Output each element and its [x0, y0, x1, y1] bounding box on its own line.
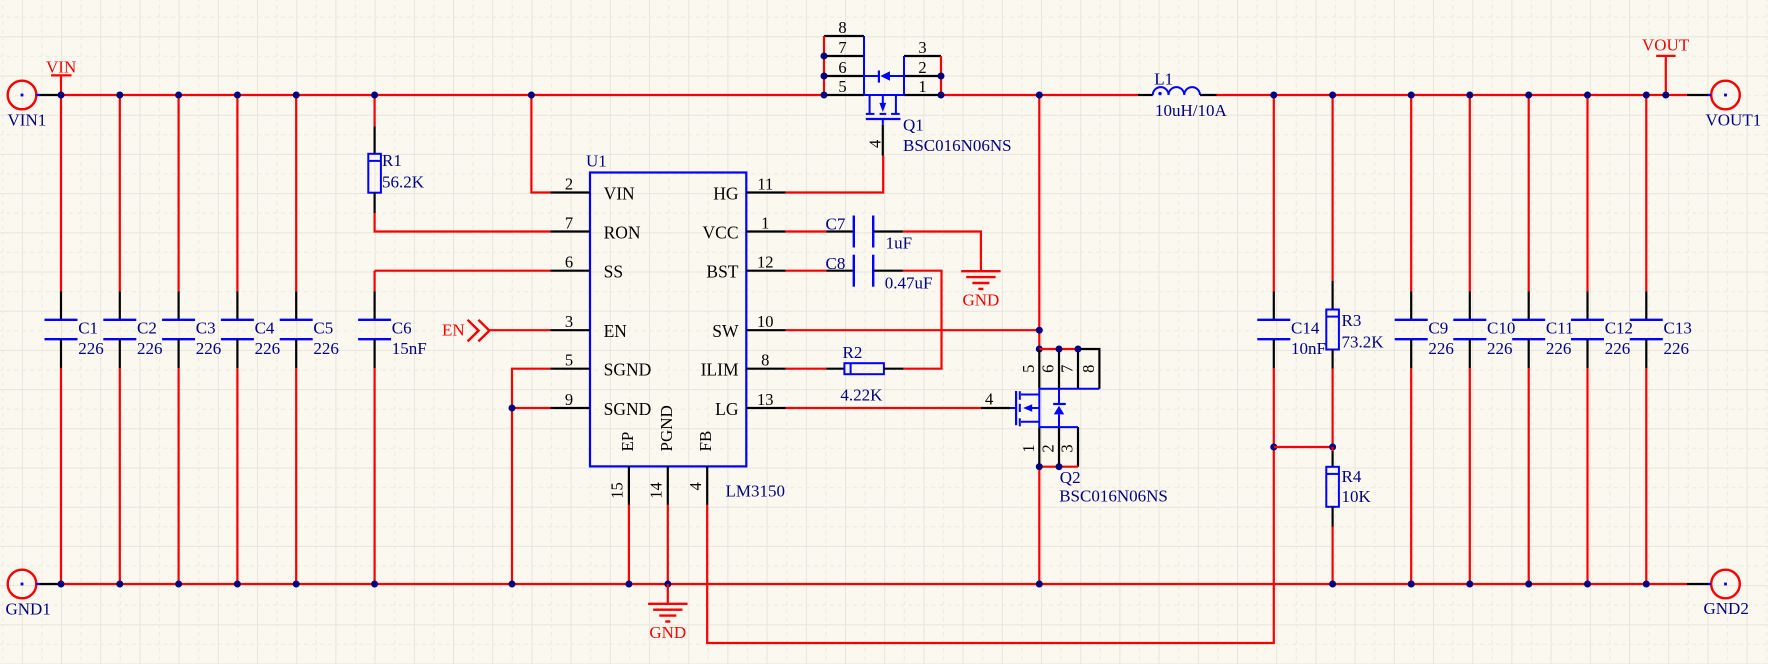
capacitor C6: [358, 271, 427, 588]
wire SGND net: [509, 369, 551, 588]
wire SS net: [375, 270, 551, 272]
capacitor C9: [1395, 92, 1454, 588]
svg-text:5: 5: [1019, 365, 1038, 373]
pin 8 ILIM: [701, 351, 786, 380]
svg-text:Q2: Q2: [1060, 468, 1081, 487]
svg-text:4: 4: [686, 482, 705, 490]
svg-text:56.2K: 56.2K: [382, 173, 425, 192]
wire EN net: [490, 329, 551, 331]
svg-text:15: 15: [608, 482, 627, 499]
svg-text:Q1: Q1: [903, 116, 924, 135]
pin 9 SGND: [551, 390, 652, 419]
svg-text:EP: EP: [618, 432, 637, 452]
svg-text:7: 7: [1058, 365, 1077, 373]
svg-text:10K: 10K: [1342, 487, 1372, 506]
port VIN1: [8, 81, 47, 130]
svg-text:3: 3: [565, 312, 573, 331]
svg-text:10uH/10A: 10uH/10A: [1155, 101, 1228, 120]
svg-text:12: 12: [757, 253, 774, 272]
svg-text:R3: R3: [1342, 311, 1362, 330]
pin 3 EN: [551, 312, 628, 341]
svg-text:226: 226: [137, 339, 163, 358]
svg-text:1: 1: [761, 213, 769, 232]
svg-text:C11: C11: [1546, 319, 1574, 338]
svg-text:7: 7: [838, 38, 846, 57]
resistor R4: [1326, 447, 1371, 588]
svg-text:226: 226: [78, 339, 104, 358]
pin 2 VIN: [551, 174, 636, 203]
svg-text:LM3150: LM3150: [726, 482, 786, 501]
svg-text:6: 6: [1039, 365, 1058, 373]
wire FB feedback net: [707, 368, 1274, 643]
wire VIN to pin 2: [528, 92, 551, 193]
svg-text:8: 8: [761, 351, 769, 370]
inductor L1 10uH/10A: [1138, 69, 1228, 120]
svg-text:GND: GND: [649, 623, 686, 642]
svg-text:R2: R2: [843, 343, 863, 362]
svg-text:VIN: VIN: [46, 58, 76, 77]
junction C14/FB node: [1270, 444, 1277, 451]
svg-text:FB: FB: [696, 431, 715, 452]
svg-text:GND1: GND1: [6, 600, 51, 619]
svg-text:0.47uF: 0.47uF: [885, 274, 933, 293]
svg-text:PGND: PGND: [657, 405, 676, 451]
resistor R2: [786, 343, 904, 405]
power port VIN: [46, 58, 76, 96]
capacitor C12: [1571, 92, 1633, 588]
svg-text:EN: EN: [442, 321, 465, 340]
svg-text:LG: LG: [715, 399, 739, 419]
svg-text:13: 13: [757, 390, 774, 409]
svg-text:3: 3: [1058, 444, 1077, 452]
svg-text:10nF: 10nF: [1291, 339, 1326, 358]
svg-text:1: 1: [1019, 444, 1038, 452]
wire VIN top rail: [37, 94, 1712, 96]
svg-text:VIN: VIN: [604, 183, 635, 203]
svg-text:C10: C10: [1487, 319, 1515, 338]
ground symbol GND (PGND): [648, 584, 687, 642]
svg-text:BST: BST: [706, 262, 738, 282]
svg-text:15nF: 15nF: [392, 339, 427, 358]
power port EN: [442, 320, 489, 342]
svg-text:VOUT1: VOUT1: [1706, 111, 1762, 130]
capacitor C2: [103, 92, 162, 588]
svg-text:C6: C6: [392, 319, 412, 338]
wire PGND to ground: [664, 505, 671, 588]
svg-text:C13: C13: [1664, 319, 1692, 338]
pin 5 SGND: [551, 351, 652, 380]
svg-text:ILIM: ILIM: [701, 360, 739, 380]
port VOUT1: [1706, 81, 1762, 130]
pin 11 HG: [713, 174, 785, 203]
svg-text:2: 2: [565, 174, 573, 193]
svg-text:BSC016N06NS: BSC016N06NS: [1059, 486, 1168, 505]
svg-text:GND2: GND2: [1704, 599, 1749, 618]
svg-text:C5: C5: [313, 319, 333, 338]
port GND1: [6, 570, 51, 619]
svg-text:2: 2: [918, 58, 926, 77]
svg-text:1: 1: [918, 77, 926, 96]
port GND2: [1704, 570, 1749, 618]
capacitor C10: [1453, 92, 1515, 588]
pin 13 LG: [715, 390, 785, 419]
svg-text:7: 7: [565, 213, 573, 232]
svg-text:C9: C9: [1428, 319, 1448, 338]
svg-text:5: 5: [838, 77, 846, 96]
svg-text:226: 226: [1428, 339, 1454, 358]
svg-text:GND: GND: [962, 291, 999, 310]
svg-text:4.22K: 4.22K: [840, 386, 883, 405]
svg-text:226: 226: [1605, 339, 1631, 358]
op-amp U1 LM3150 regulator body: [586, 152, 785, 501]
svg-text:226: 226: [196, 339, 222, 358]
svg-text:10: 10: [757, 312, 774, 331]
svg-text:BSC016N06NS: BSC016N06NS: [903, 136, 1012, 155]
transistor Q2 BSC016N06NS low-side MOSFET: [981, 346, 1168, 588]
wire RON net: [375, 213, 551, 231]
resistor R3: [1326, 92, 1384, 448]
wire GND bottom rail: [40, 583, 1711, 585]
svg-text:VOUT: VOUT: [1642, 36, 1690, 55]
svg-text:226: 226: [1487, 339, 1513, 358]
svg-text:C14: C14: [1291, 319, 1320, 338]
svg-text:EN: EN: [604, 321, 628, 341]
pin 4 FB: [686, 431, 715, 505]
svg-text:9: 9: [565, 390, 573, 409]
svg-text:226: 226: [255, 339, 281, 358]
svg-text:L1: L1: [1154, 69, 1173, 88]
svg-text:3: 3: [918, 38, 926, 57]
wire VCC cap to ground: [903, 232, 981, 271]
power port VOUT: [1642, 36, 1690, 95]
pin 6 SS: [551, 253, 624, 282]
svg-text:VCC: VCC: [703, 222, 739, 242]
svg-text:4: 4: [985, 390, 993, 409]
svg-text:73.2K: 73.2K: [1342, 333, 1385, 352]
junction VOUT stem: [1662, 92, 1669, 99]
svg-text:8: 8: [1079, 365, 1098, 373]
svg-text:2: 2: [1039, 444, 1058, 452]
svg-text:SS: SS: [604, 262, 623, 282]
svg-text:6: 6: [838, 58, 846, 77]
svg-text:11: 11: [757, 174, 773, 193]
svg-text:226: 226: [313, 339, 339, 358]
svg-text:C1: C1: [78, 319, 98, 338]
wire LG net: [786, 407, 981, 409]
pin 12 BST: [706, 253, 785, 282]
capacitor C8: [786, 254, 933, 293]
svg-text:RON: RON: [604, 222, 641, 242]
capacitor C5: [280, 92, 339, 588]
capacitor C14: [1257, 92, 1326, 369]
svg-text:C4: C4: [255, 319, 275, 338]
capacitor C4: [221, 92, 280, 588]
svg-text:R4: R4: [1342, 467, 1362, 486]
transistor Q1 BSC016N06NS high-side MOSFET: [821, 18, 1012, 156]
resistor R1: [368, 92, 424, 214]
pin 7 RON: [551, 213, 641, 242]
svg-text:SW: SW: [712, 321, 739, 341]
wire BST net: [903, 271, 942, 369]
svg-text:C8: C8: [826, 254, 846, 273]
wire HG net: [786, 156, 884, 193]
pin 15 EP: [608, 432, 637, 505]
capacitor C1: [45, 92, 104, 588]
svg-text:C2: C2: [137, 319, 157, 338]
svg-text:6: 6: [565, 253, 573, 272]
wire R3/R4 junction: [1274, 444, 1336, 451]
svg-text:8: 8: [838, 18, 846, 37]
capacitor C3: [162, 92, 221, 588]
svg-text:1uF: 1uF: [886, 233, 912, 252]
svg-text:226: 226: [1546, 339, 1572, 358]
svg-text:VIN1: VIN1: [8, 111, 47, 130]
wire EP to ground: [625, 505, 632, 588]
wire SW net: [786, 92, 1043, 353]
svg-text:C3: C3: [196, 319, 216, 338]
ground symbol GND (VCC cap): [961, 270, 1000, 309]
svg-text:14: 14: [647, 482, 666, 499]
pin 10 SW: [712, 312, 785, 341]
svg-text:C7: C7: [826, 215, 846, 234]
capacitor C11: [1512, 92, 1573, 588]
pin 1 VCC: [703, 213, 786, 242]
svg-text:4: 4: [865, 140, 884, 148]
capacitor C7: [786, 215, 913, 253]
svg-text:SGND: SGND: [604, 360, 652, 380]
svg-text:R1: R1: [382, 151, 402, 170]
svg-text:5: 5: [565, 351, 573, 370]
svg-text:HG: HG: [713, 183, 739, 203]
svg-text:U1: U1: [586, 152, 607, 171]
capacitor C13: [1630, 92, 1692, 588]
svg-text:226: 226: [1664, 339, 1690, 358]
pin 14 PGND: [647, 405, 676, 505]
svg-text:C12: C12: [1605, 319, 1633, 338]
svg-text:SGND: SGND: [604, 399, 652, 419]
